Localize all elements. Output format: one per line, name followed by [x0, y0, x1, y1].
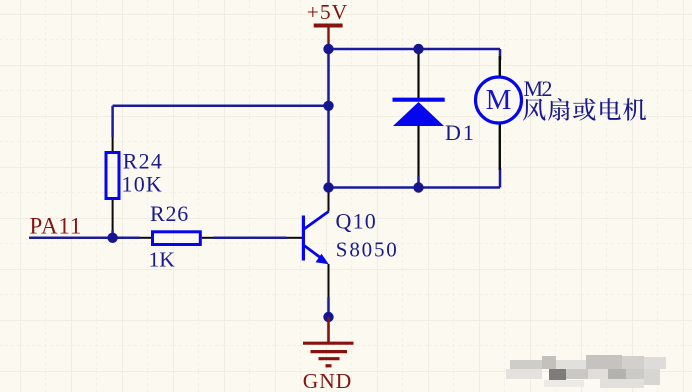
node junction dot diode top: [413, 44, 423, 54]
wire emitter to GND node: [327, 297, 330, 317]
pin D1 anode: [417, 126, 419, 176]
pin M2 bottom: [499, 123, 501, 170]
resistor R24: [106, 153, 119, 199]
pin R26 right: [202, 237, 214, 239]
transistor Q10 emitter arrow: [316, 254, 329, 264]
motor M2: [476, 77, 522, 123]
svg-text:10K: 10K: [122, 172, 164, 197]
wire R24 bottom to PA11 node: [111, 230, 114, 238]
svg-text:GND: GND: [303, 369, 353, 392]
resistor R26: [153, 232, 201, 245]
wire diode bottom stub: [417, 176, 420, 188]
wire R26 to base: [214, 237, 287, 240]
label M2 description 风扇或电机: [523, 98, 646, 121]
pin Q10 emitter: [328, 264, 330, 297]
pin R26 left: [140, 237, 152, 239]
watermark mosaic: [506, 355, 666, 388]
wire left branch vertical to R24: [111, 106, 114, 137]
node junction dot diode bottom: [413, 182, 423, 192]
svg-text:R24: R24: [123, 149, 163, 174]
wire top rail: [329, 48, 501, 51]
ground GND symbol: [303, 317, 354, 366]
wire motor right branch: [499, 49, 502, 188]
svg-text:R26: R26: [150, 201, 189, 226]
pin R24 top: [112, 137, 114, 151]
node junction dot +5V: [323, 44, 333, 54]
svg-text:D1: D1: [445, 120, 476, 145]
node junction dot PA11: [107, 233, 117, 243]
pin D1 cathode: [417, 52, 419, 98]
wire left branch horizontal: [113, 105, 329, 108]
svg-text:+5V: +5V: [307, 0, 348, 24]
transistor Q10: [303, 212, 328, 262]
svg-text:Q10: Q10: [336, 209, 378, 234]
power +5V symbol: [314, 26, 343, 50]
svg-text:PA11: PA11: [30, 214, 83, 239]
node junction dot left branch: [323, 101, 333, 111]
svg-text:S8050: S8050: [336, 238, 397, 262]
wire main vertical (+5V to collector junction): [327, 49, 330, 188]
pin Q10 base: [287, 237, 303, 239]
node junction dot emitter-GND: [323, 312, 333, 322]
pin M2 top: [499, 56, 501, 77]
svg-text:1K: 1K: [149, 248, 176, 272]
svg-text:M2: M2: [524, 76, 552, 101]
pin R24 bottom: [112, 200, 114, 230]
wire PA11 input: [29, 237, 140, 240]
diode D1: [393, 98, 445, 126]
wire bottom rail: [329, 186, 501, 189]
pin Q10 collector: [328, 192, 330, 212]
node junction dot collector: [323, 182, 333, 192]
svg-text:M: M: [486, 84, 512, 116]
